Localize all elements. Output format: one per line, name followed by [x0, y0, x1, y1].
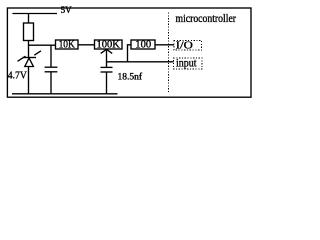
port I/O dotted box: [174, 41, 202, 51]
capacitor C1 top plate: [45, 66, 58, 68]
wire corner up to 100: [128, 45, 132, 62]
port input dotted box: [174, 58, 203, 69]
potentiometer wiper arrow: [101, 49, 113, 53]
svg-text:I/O: I/O: [176, 40, 193, 52]
microcontroller boundary dotted line: [168, 13, 170, 94]
wire rail to resistor R1: [28, 14, 30, 24]
svg-text:5V: 5V: [61, 5, 73, 15]
svg-text:input: input: [176, 58, 197, 70]
wire cap C1 branch: [50, 45, 52, 67]
resistor 10K: [56, 40, 79, 49]
svg-text:100: 100: [135, 39, 151, 51]
wire R1 bottom to node A: [28, 41, 30, 46]
wire 100 to I/O: [155, 44, 174, 46]
ground rail: [12, 93, 118, 95]
svg-text:4.7V: 4.7V: [8, 70, 27, 82]
zener D1 right tick: [34, 51, 41, 55]
potentiometer 100K: [95, 40, 123, 49]
wire node A to 10K: [28, 44, 56, 46]
wire C2 to ground rail: [106, 72, 108, 94]
svg-text:microcontroller: microcontroller: [176, 13, 237, 25]
wire node A down to zener: [28, 45, 30, 57]
capacitor C2 top plate: [101, 66, 113, 68]
svg-text:10K: 10K: [59, 39, 75, 51]
resistor R1: [24, 23, 34, 41]
zener D1 left tick: [18, 56, 26, 61]
wire wiper node to input: [107, 61, 174, 63]
border frame: [7, 8, 251, 97]
wire 10K to 100K: [78, 44, 95, 46]
resistor 100: [131, 40, 155, 49]
wire C1 to ground rail: [50, 72, 52, 94]
capacitor C1 bottom plate: [45, 71, 58, 73]
capacitor C2 bottom plate: [101, 71, 113, 73]
wire 5V rail: [12, 13, 57, 15]
svg-text:100K: 100K: [97, 39, 120, 51]
svg-text:18.5nf: 18.5nf: [118, 71, 143, 81]
wire zener bottom to ground rail: [28, 67, 30, 94]
zener D1 cathode bar: [23, 57, 37, 59]
zener D1 triangle: [25, 58, 34, 67]
wire wiper shaft: [106, 49, 108, 67]
